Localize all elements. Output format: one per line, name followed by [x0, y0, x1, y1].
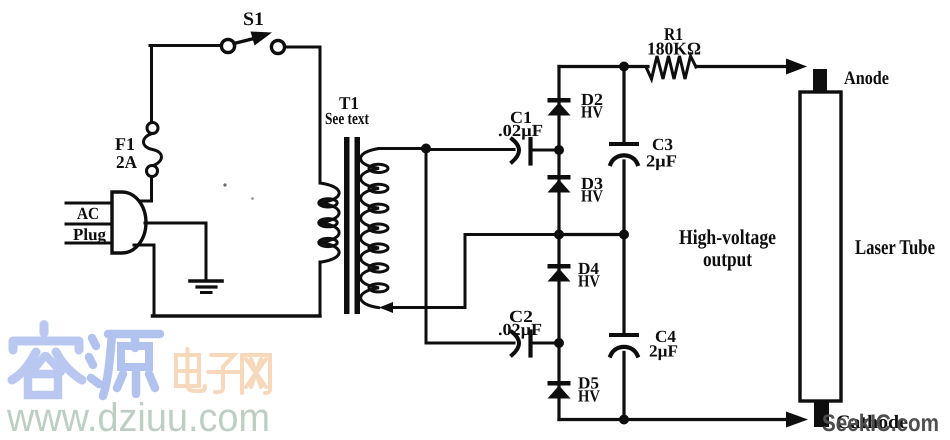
capacitor C3 straight plate: [611, 142, 637, 146]
wire: C3 bottom to mid node: [622, 161, 625, 235]
node: bottom rail / C4 junction: [619, 415, 629, 425]
svg-text:HV: HV: [581, 103, 604, 122]
laser tube body: [800, 92, 841, 401]
svg-text:.02µF: .02µF: [498, 320, 542, 339]
wire: C4 bottom to bottom rail: [622, 353, 625, 420]
diode D4: [548, 264, 571, 282]
svg-text:Plug: Plug: [73, 225, 106, 244]
transformer T1 primary winding: [319, 183, 339, 262]
wire: plug bottom terminal down to bottom rail: [134, 245, 154, 316]
watermark 电: [176, 349, 205, 391]
wire: C3 top: [622, 67, 625, 145]
svg-text:Anode: Anode: [844, 68, 889, 89]
fuse F1 top contact: [147, 123, 158, 134]
wire: C1 to diode chain: [531, 149, 560, 152]
transformer T1 core bar 2: [355, 137, 361, 314]
capacitor C4 straight plate: [611, 333, 637, 337]
node: mid line / C3-C4 junction: [619, 230, 629, 240]
svg-text:.02µF: .02µF: [498, 121, 543, 140]
plug prong line 2: [66, 223, 112, 226]
svg-text:S1: S1: [243, 9, 264, 30]
scan speck 1: [223, 183, 226, 186]
svg-text:2µF: 2µF: [649, 342, 678, 361]
transformer T1 secondary winding: [361, 149, 388, 308]
wire: secondary top junction down to C2 branch: [426, 149, 514, 344]
wire: fuse to plug top terminal: [133, 177, 152, 202]
wire: R1 to anode arrow: [696, 65, 789, 68]
wire: top-left vertical (fuse to switch rail): [150, 46, 153, 123]
wire: secondary top terminal to junction node: [379, 147, 426, 150]
switch S1 lever: [234, 38, 258, 44]
switch S1 lever arrowhead: [251, 32, 273, 46]
wire: primary bottom to bottom rail: [319, 262, 322, 316]
switch S1 contact right: [271, 40, 284, 53]
laser tube cathode terminal: [814, 400, 829, 427]
capacitor C4 curved plate: [611, 347, 638, 356]
node: mid line / diode chain junction: [554, 230, 564, 240]
plug prong line 1: [66, 202, 112, 205]
wire: top rail left (corner to switch left contact): [150, 44, 222, 47]
capacitor C3 curved plate: [611, 155, 638, 164]
wire: C2 to diode chain: [531, 342, 560, 345]
wire: top rail (diode chain to R1): [559, 65, 648, 68]
wire: plug middle terminal to ground: [145, 223, 206, 279]
transformer T1 core bar 1: [344, 137, 350, 314]
node: C2 / D4 / D5 junction: [554, 338, 564, 348]
svg-text:See text: See text: [325, 109, 369, 128]
wire: mid line (diode chain to C3 bottom): [559, 233, 624, 236]
svg-text:AC: AC: [77, 204, 99, 223]
svg-text:HV: HV: [578, 272, 601, 291]
ground: [190, 281, 222, 293]
diode D5: [548, 381, 571, 399]
watermark 子: [208, 355, 240, 392]
node: C1 / D2 / D3 junction: [554, 145, 564, 155]
svg-text:F1: F1: [115, 134, 135, 154]
svg-text:www.dziuu.com: www.dziuu.com: [6, 396, 270, 440]
wire: secondary top junction to C1: [426, 148, 514, 151]
wire: center tap riser to mid node: [465, 235, 559, 308]
resistor R1: [646, 56, 696, 79]
wire: secondary bottom to center tap riser: [384, 306, 465, 309]
svg-text:HV: HV: [578, 387, 601, 406]
laser tube anode terminal: [813, 69, 827, 93]
wire: switch right contact to transformer primary top: [285, 47, 321, 183]
capacitor C1 curved plate: [512, 139, 519, 162]
watermark 源: [89, 334, 160, 396]
svg-text:Laser Tube: Laser Tube: [855, 235, 935, 259]
svg-text:HV: HV: [581, 187, 604, 206]
wire: bottom rail (plug to transformer primary): [153, 314, 321, 317]
wire: diode chain vertical: [557, 67, 560, 420]
fuse F1 bottom contact: [147, 166, 158, 177]
arrowhead at secondary bottom: [379, 302, 393, 313]
node: secondary top junction: [421, 144, 431, 154]
capacitor C2 curved plate: [512, 332, 519, 355]
switch S1 contact left: [221, 39, 234, 52]
svg-text:High-voltage: High-voltage: [679, 225, 776, 249]
wire: C4 top: [622, 235, 625, 336]
capacitor C1 straight plate: [528, 139, 532, 164]
svg-text:180KΩ: 180KΩ: [647, 39, 701, 59]
watermark 网: [242, 355, 270, 393]
scan speck 2: [251, 197, 254, 200]
diode D3: [548, 175, 571, 193]
svg-text:output: output: [703, 247, 752, 271]
arrowhead to anode: [786, 59, 807, 75]
plug prong line 3: [66, 242, 112, 245]
svg-text:SeekIC.com: SeekIC.com: [822, 410, 939, 437]
fuse F1 element (S-curve): [143, 134, 161, 167]
AC plug body: [112, 192, 146, 253]
watermark 容: [12, 325, 82, 396]
node: top rail / C3 / R1 junction: [619, 62, 629, 72]
wire: bottom rail (diode chain to cathode arrow): [559, 418, 789, 421]
svg-text:2µF: 2µF: [646, 152, 677, 171]
capacitor C2 straight plate: [528, 332, 532, 356]
svg-text:2A: 2A: [116, 152, 137, 172]
diode D2: [548, 98, 571, 116]
arrowhead to cathode: [786, 412, 808, 428]
